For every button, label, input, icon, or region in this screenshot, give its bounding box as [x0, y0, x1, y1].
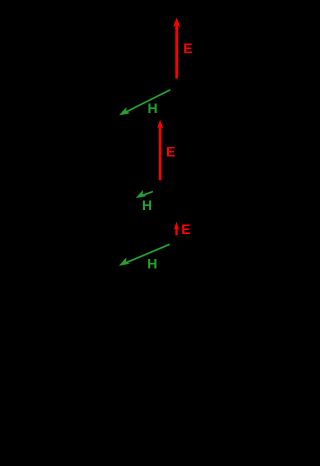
E field arrow E3 (bottom, small red vertical): [174, 222, 179, 236]
svg-text:E: E: [181, 221, 190, 237]
H field arrow H2 (middle, short green diagonal): [136, 190, 153, 198]
E field arrow E2 (middle, red vertical): [157, 120, 163, 181]
H field arrow H3 (bottom, long green diagonal): [119, 244, 170, 265]
H field arrow H1 (top, green diagonal): [119, 90, 170, 116]
svg-text:E: E: [183, 40, 192, 56]
svg-text:E: E: [166, 144, 175, 160]
svg-text:H: H: [147, 255, 157, 271]
E field arrow E1 (top, large red vertical): [173, 18, 180, 79]
svg-text:H: H: [148, 100, 158, 116]
svg-text:H: H: [142, 197, 152, 213]
